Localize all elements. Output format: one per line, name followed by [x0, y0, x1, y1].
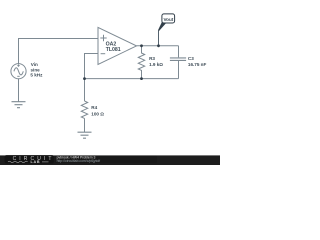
net flag Vout pointer [158, 22, 166, 31]
watermark logo box [5, 155, 54, 163]
wire: source bottom to ground [18, 79, 20, 102]
resistor R3 lead, zigzag, lead [138, 46, 144, 79]
op-amp + input symbol [100, 35, 106, 41]
svg-text:C3: C3 [188, 56, 194, 61]
junction dot: output to Vout stem [157, 44, 160, 47]
svg-text:R3: R3 [149, 56, 155, 61]
wire: R4 bottom to ground [84, 118, 86, 132]
junction dot: output to R3 [140, 44, 143, 47]
svg-text:Vout: Vout [163, 17, 173, 22]
svg-text:TL081: TL081 [106, 47, 121, 53]
source sine glyph [14, 68, 23, 75]
junction dot: feedback node at inverting branch [83, 77, 86, 80]
capacitor C3 plates [170, 58, 186, 61]
source + polarity mark [17, 64, 19, 66]
op-amp OA2 triangle [98, 27, 137, 64]
svg-text:1.9 kΩ: 1.9 kΩ [149, 62, 163, 67]
net flag Vout stem [158, 31, 160, 46]
junction dot: R3 bottom to feedback rail [140, 77, 143, 80]
watermark bar [0, 155, 220, 165]
watermark logo squiggle [8, 161, 28, 163]
watermark info box [55, 156, 157, 163]
ground symbol under source [12, 102, 26, 108]
wire: op-amp output to C3 corner [137, 45, 179, 47]
capacitor C3 top lead [178, 46, 180, 58]
wire: inverting input stub left and down to feedback node [85, 54, 99, 102]
capacitor C3 bottom lead [178, 61, 180, 79]
ground symbol under R4 [78, 132, 92, 138]
voltage source V1 (Vin) body [11, 64, 26, 79]
svg-text:100 Ω: 100 Ω [91, 111, 104, 116]
svg-text:5 kHz: 5 kHz [30, 73, 43, 78]
svg-text:http://circuitlab.com/c/p6jykd: http://circuitlab.com/c/p6jykdf [57, 159, 101, 163]
wire: Vin top up and over to op-amp non-inverting input [19, 39, 99, 64]
op-amp - input symbol [101, 53, 106, 55]
resistor R4 zigzag [81, 101, 87, 118]
svg-text:LAB: LAB [31, 160, 41, 164]
net flag Vout box [162, 14, 175, 23]
wire: feedback bottom rail [85, 78, 179, 80]
watermark logo tail line [42, 161, 49, 163]
svg-text:16.75 nF: 16.75 nF [188, 62, 207, 67]
svg-text:R4: R4 [91, 105, 97, 110]
source - polarity mark [17, 75, 19, 77]
